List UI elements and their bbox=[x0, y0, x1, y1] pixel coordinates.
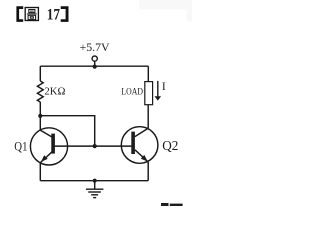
svg-text:17: 17 bbox=[47, 7, 60, 24]
svg-text:I: I bbox=[162, 81, 166, 93]
svg-text:Q2: Q2 bbox=[162, 138, 178, 153]
svg-text:2KΩ: 2KΩ bbox=[44, 86, 65, 98]
svg-text:LOAD: LOAD bbox=[121, 88, 143, 98]
svg-text:+5.7V: +5.7V bbox=[80, 42, 111, 54]
svg-text:Q1: Q1 bbox=[14, 139, 27, 153]
